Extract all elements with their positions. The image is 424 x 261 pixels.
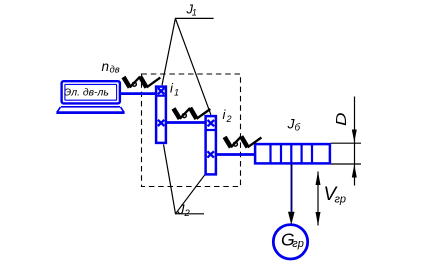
svg-text:D: D — [333, 112, 350, 126]
svg-text:Эл. дв-ль: Эл. дв-ль — [64, 88, 109, 99]
svg-text:2: 2 — [184, 208, 191, 219]
svg-text:б: б — [295, 122, 301, 134]
svg-text:1: 1 — [192, 8, 197, 18]
svg-text:n: n — [102, 59, 110, 74]
svg-text:дв: дв — [110, 65, 120, 76]
svg-text:1: 1 — [174, 88, 179, 98]
svg-text:2: 2 — [226, 114, 232, 124]
svg-text:гр: гр — [292, 238, 304, 250]
svg-text:гр: гр — [335, 193, 347, 205]
